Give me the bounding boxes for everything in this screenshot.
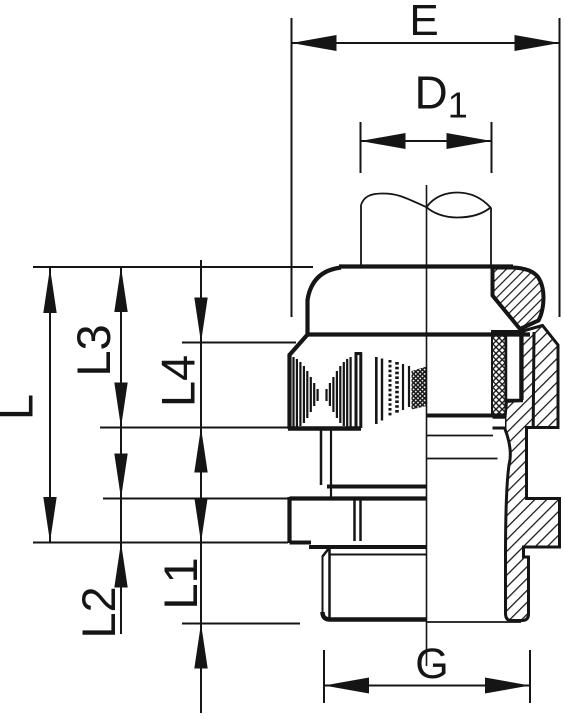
svg-text:G: G — [415, 640, 448, 688]
svg-text:E: E — [409, 0, 438, 45]
svg-text:L1: L1 — [154, 557, 207, 609]
svg-text:L4: L4 — [152, 355, 205, 407]
svg-text:L2: L2 — [72, 586, 125, 638]
svg-text:L3: L3 — [67, 324, 120, 376]
svg-text:L: L — [0, 394, 43, 420]
